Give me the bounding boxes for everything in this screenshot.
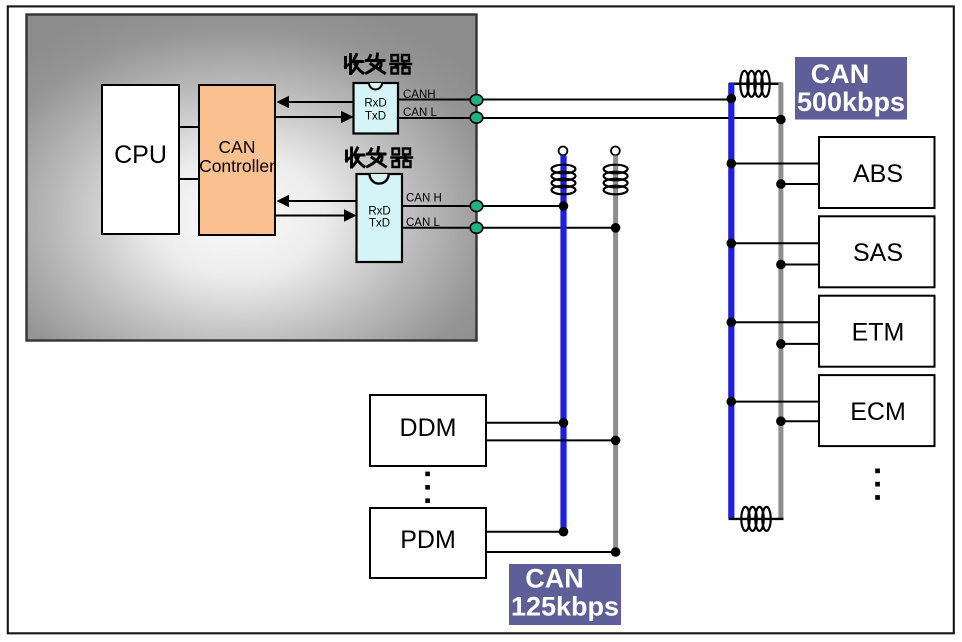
terminator coil top (500k bus) bbox=[740, 71, 769, 97]
junction ETM/blue bbox=[727, 317, 737, 327]
CAN 500kbps label bbox=[795, 57, 907, 120]
svg-text:CAN: CAN bbox=[811, 59, 870, 89]
wire blue bus to SAS bbox=[731, 242, 819, 244]
器 char3 bbox=[391, 55, 412, 74]
node CANH2 stub (green) bbox=[470, 201, 483, 212]
svg-text:ETM: ETM bbox=[852, 319, 905, 347]
transceiver U2 box bbox=[357, 174, 403, 262]
controller node gray panel bbox=[27, 15, 477, 341]
svg-text:CAN: CAN bbox=[525, 564, 584, 594]
收 char1 bbox=[347, 148, 365, 167]
500k bus gray CAN L line bbox=[778, 83, 783, 519]
junction DDM/gray bbox=[611, 436, 621, 446]
DDM box bbox=[370, 395, 486, 466]
svg-text:SAS: SAS bbox=[853, 239, 903, 267]
wire DDM CANH bbox=[486, 422, 564, 424]
svg-text:CAN H: CAN H bbox=[406, 193, 442, 205]
SAS box bbox=[819, 216, 935, 287]
500k bus top terminator wire bbox=[729, 83, 783, 86]
svg-text:500kbps: 500kbps bbox=[797, 87, 905, 117]
terminator coil on 125k blue bus bbox=[552, 165, 576, 195]
ellipsis below ECM bbox=[875, 469, 880, 500]
junction SAS/blue bbox=[727, 239, 737, 249]
收 char1 bbox=[346, 55, 364, 74]
wire gray bus to ECM bbox=[781, 420, 819, 422]
svg-text:TxD: TxD bbox=[369, 218, 390, 230]
wire gray bus to ABS bbox=[781, 183, 819, 185]
terminator coil on 125k gray bus bbox=[604, 165, 628, 195]
ETM box bbox=[819, 296, 935, 367]
wire blue bus to ECM bbox=[731, 401, 819, 403]
svg-text:CAN: CAN bbox=[219, 137, 256, 157]
器 char3 bbox=[392, 149, 413, 168]
PDM box bbox=[370, 508, 486, 578]
wire PDM CANL bbox=[486, 551, 616, 553]
junction SAS/gray bbox=[776, 260, 786, 270]
wire CAN L U1 to 500k gray bus bbox=[398, 117, 781, 119]
svg-text:Controller: Controller bbox=[199, 156, 275, 176]
junction CANL/gray bus bbox=[776, 115, 786, 125]
wire blue bus to ABS bbox=[731, 163, 819, 165]
junction U2 CANH / blue bus bbox=[559, 201, 569, 211]
wire CPU to controller (lower) bbox=[179, 178, 199, 180]
junction DDM/blue bbox=[559, 418, 569, 428]
svg-text:RxD: RxD bbox=[368, 206, 390, 218]
svg-text:DDM: DDM bbox=[400, 414, 457, 442]
CPU box bbox=[102, 85, 179, 234]
arrow U1 to controller (RxD) bbox=[277, 96, 354, 109]
svg-text:125kbps: 125kbps bbox=[511, 592, 619, 622]
wire CAN H U2 to 125k blue bus bbox=[403, 205, 564, 207]
125k bus: open end circle blue bbox=[559, 147, 568, 156]
junction U2 CANL / gray bus bbox=[611, 223, 621, 233]
500k bus blue CAN H line bbox=[728, 83, 734, 518]
svg-text:PDM: PDM bbox=[400, 526, 456, 554]
junction PDM/gray bbox=[611, 547, 621, 557]
arrow controller to U1 (TxD) bbox=[275, 111, 354, 124]
arrow U2 to controller (RxD) bbox=[277, 195, 357, 208]
wire DDM CANL bbox=[486, 439, 616, 441]
terminator coil bottom (500k bus) bbox=[741, 507, 770, 531]
svg-text:CAN L: CAN L bbox=[403, 107, 437, 119]
wire CPU to controller (upper) bbox=[179, 126, 199, 128]
wire CANH U1 to 500k blue bus bbox=[398, 99, 731, 101]
125k bus: gray CAN L line bbox=[613, 156, 618, 555]
transceiver U1 box bbox=[354, 83, 399, 134]
node CANH stub (green) bbox=[470, 95, 483, 106]
junction PDM/blue bbox=[559, 527, 569, 537]
junction ABS/gray bbox=[776, 179, 786, 189]
junction ETM/gray bbox=[776, 339, 786, 349]
发 char2 bbox=[368, 148, 386, 167]
svg-text:ECM: ECM bbox=[850, 398, 906, 426]
transceiver label 1 (收发器) bbox=[346, 54, 412, 74]
125k bus: blue CAN H line bbox=[560, 156, 566, 535]
ABS box bbox=[819, 137, 935, 208]
junction ABS/blue bbox=[727, 159, 737, 169]
CAN Controller box bbox=[199, 85, 275, 235]
svg-text:CANH: CANH bbox=[403, 89, 436, 101]
wire CAN L U2 to 125k gray bus bbox=[403, 227, 616, 229]
500k bus bottom terminator wire bbox=[729, 518, 784, 520]
wire blue bus to ETM bbox=[731, 321, 819, 323]
junction ECM/gray bbox=[776, 416, 786, 426]
junction ECM/blue bbox=[727, 397, 737, 407]
junction CANH/blue bus bbox=[727, 94, 737, 104]
wire gray bus to ETM bbox=[781, 343, 819, 345]
node CANL stub (green) bbox=[470, 112, 483, 123]
ellipsis between DDM and PDM bbox=[425, 472, 430, 503]
wire PDM CANH bbox=[486, 531, 564, 533]
svg-text:TxD: TxD bbox=[365, 111, 386, 123]
svg-text:CAN L: CAN L bbox=[406, 217, 440, 229]
发 char2 bbox=[367, 54, 385, 73]
node CANL2 stub (green) bbox=[470, 222, 483, 233]
svg-text:RxD: RxD bbox=[364, 98, 386, 110]
arrow controller to U2 (TxD) bbox=[275, 209, 357, 222]
ECM box bbox=[819, 375, 935, 446]
125k bus: open end circle gray bbox=[611, 147, 620, 156]
svg-text:ABS: ABS bbox=[853, 160, 903, 188]
wire gray bus to SAS bbox=[781, 264, 819, 266]
transceiver label 2 (收发器) bbox=[347, 148, 413, 168]
svg-text:CPU: CPU bbox=[114, 141, 167, 169]
CAN 125kbps label bbox=[509, 564, 621, 626]
